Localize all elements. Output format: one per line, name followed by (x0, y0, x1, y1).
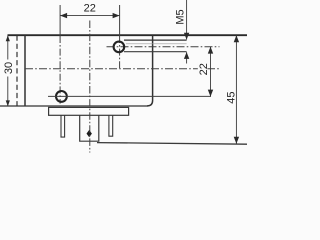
dimension 45: bottom arrow (234, 137, 239, 144)
dimension 22 top: left arrow (60, 13, 67, 18)
dimension 22 right: line (210, 47, 212, 97)
thread root line (126, 43, 187, 45)
svg-text:22: 22 (198, 63, 210, 75)
dimension 22 right: top arrow (208, 47, 213, 54)
svg-text:M5: M5 (174, 9, 186, 24)
svg-text:45: 45 (226, 91, 238, 103)
diamond index mark (87, 130, 92, 137)
dimension 22 top: right arrow (113, 13, 120, 18)
slot top edge (124, 39, 187, 41)
dimension 30 left: text (4, 60, 15, 77)
dimension 22 right: text (198, 62, 208, 78)
dimension 45: line (235, 35, 237, 144)
dimension 30 left: top arrow (6, 35, 10, 41)
body right edge with rounded bottom corner (147, 35, 152, 106)
ground / reference surface line (97, 143, 247, 145)
hidden edge (dashed) (16, 36, 18, 107)
dimension 22 top: line (60, 15, 120, 17)
dimension 30 left: bottom arrow (6, 100, 10, 106)
terminal base plate (49, 107, 129, 115)
dimension 45: top arrow (234, 35, 239, 42)
dimension 22 right: bottom arrow (208, 90, 213, 97)
bottom-left screw head (56, 91, 67, 102)
svg-text:22: 22 (84, 3, 96, 15)
vertical part centerline (89, 21, 91, 153)
dimension 30 left: line (7, 35, 9, 106)
top-right screw head (114, 42, 125, 53)
slot bottom edge (124, 51, 187, 53)
leader from bottom screw to right dimension (48, 95, 211, 97)
vertical centerline left screw (59, 5, 61, 36)
rod centerline (107, 46, 220, 48)
svg-text:30: 30 (3, 62, 15, 74)
M5 leader line (186, 0, 188, 39)
M5 down arrow (184, 33, 189, 40)
right pin (109, 115, 113, 136)
body left edge (24, 35, 26, 106)
top mounting surface line (8, 34, 248, 36)
left pin (61, 115, 65, 137)
horizontal body centerline (25, 68, 220, 70)
M5 up arrow with tail (186, 52, 188, 63)
vertical centerline right screw (119, 5, 121, 36)
body bottom edge (0, 105, 148, 107)
center connector block (80, 115, 99, 141)
